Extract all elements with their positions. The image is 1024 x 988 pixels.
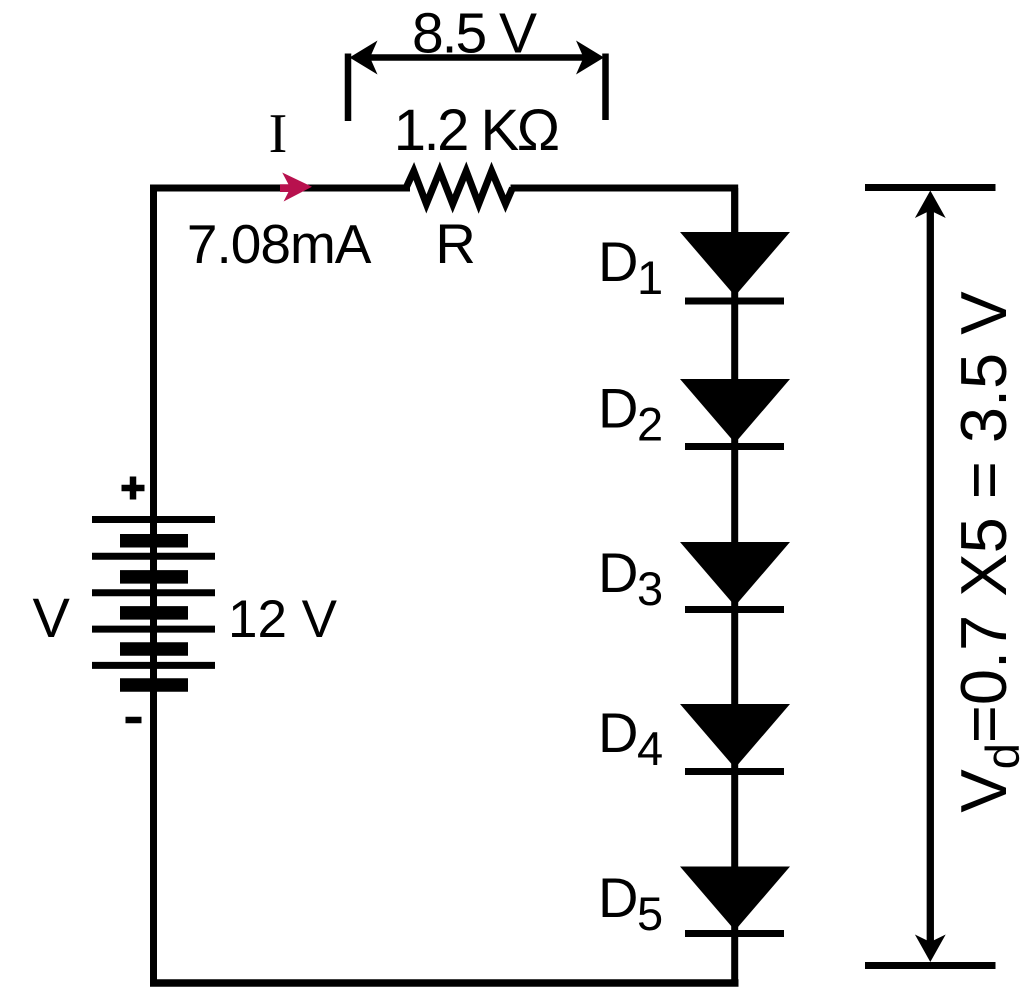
- double-headed arrow for 8.5 V span: [350, 41, 605, 75]
- voltage bracket: right tick of 8.5 V span: [602, 54, 609, 121]
- label: D2: [598, 377, 663, 451]
- svg-text:2: 2: [637, 398, 663, 451]
- wire: top-left (battery positive up to top rail, to resistor): [154, 188, 411, 521]
- label: D5: [598, 866, 663, 940]
- svg-text:1.2 KΩ: 1.2 KΩ: [394, 98, 558, 163]
- wire: bottom rail: [150, 979, 739, 987]
- svg-text:5: 5: [637, 887, 663, 940]
- label: D4: [598, 701, 663, 775]
- label: D1: [598, 230, 663, 304]
- svg-text:R: R: [435, 212, 475, 275]
- diode D3: [680, 542, 790, 610]
- voltage bracket: left tick of 8.5 V span: [345, 54, 352, 122]
- diode D2: [680, 379, 790, 447]
- svg-text:Vd=0.7 X5 = 3.5 V: Vd=0.7 X5 = 3.5 V: [947, 291, 1024, 813]
- svg-text:D: D: [598, 230, 638, 293]
- diode D5: [680, 867, 790, 934]
- current direction arrow (crimson) on top rail: [280, 173, 312, 202]
- diode D4: [680, 704, 790, 772]
- resistor R (zigzag): [406, 171, 513, 204]
- wire: right vertical through diode chain D1-D5: [731, 188, 738, 983]
- svg-text:V: V: [33, 586, 71, 649]
- svg-text:I: I: [269, 103, 288, 165]
- svg-text:D: D: [598, 541, 638, 604]
- measurement bar: bottom of Vd span: [865, 962, 996, 969]
- svg-text:12 V: 12 V: [228, 590, 338, 649]
- label: D3: [598, 541, 663, 615]
- battery polarity: plus sign: [122, 477, 145, 500]
- svg-text:D: D: [598, 866, 638, 929]
- wire: top-right (resistor to diode chain corner): [511, 188, 735, 236]
- battery polarity: minus sign: [126, 717, 142, 724]
- svg-text:D: D: [598, 377, 638, 440]
- battery V (5 cells: long thin and short thick plates): [92, 520, 215, 686]
- svg-text:1: 1: [637, 251, 663, 304]
- svg-text:7.08mA: 7.08mA: [187, 213, 372, 275]
- diode D1: [680, 232, 790, 301]
- svg-text:3: 3: [637, 562, 663, 615]
- measurement bar: top of Vd span: [865, 184, 996, 191]
- wire: left vertical through battery down to bottom-left corner: [150, 519, 157, 983]
- svg-text:D: D: [598, 701, 638, 764]
- svg-text:8.5 V: 8.5 V: [412, 2, 537, 66]
- double-headed vertical arrow for Vd span: [915, 191, 946, 963]
- svg-text:4: 4: [637, 722, 663, 775]
